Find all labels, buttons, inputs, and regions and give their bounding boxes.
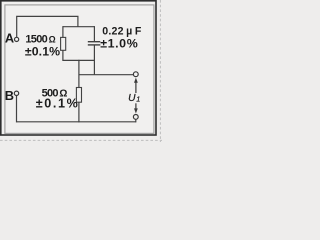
resistor R 500 ohm <box>76 88 81 103</box>
dashed border bottom <box>0 139 162 141</box>
wire middle bus <box>63 59 95 61</box>
svg-text:±0.1%: ±0.1% <box>36 97 80 111</box>
output terminal bottom <box>133 115 138 120</box>
voltage arrow up shaft <box>135 82 137 94</box>
wire riser to lower terminal <box>135 119 137 122</box>
terminal A circle <box>15 37 19 41</box>
dashed border right <box>159 0 161 142</box>
wire B down lead <box>16 96 18 123</box>
resistor R 1500 ohm <box>61 37 66 50</box>
capacitor C plates <box>88 42 101 45</box>
wire R1 top lead <box>62 26 64 37</box>
svg-text:B: B <box>5 88 14 103</box>
inner gray frame <box>5 5 154 134</box>
svg-text:±0.1%: ±0.1% <box>25 45 60 59</box>
svg-text:±1.0%: ±1.0% <box>100 37 138 51</box>
terminal B circle <box>14 91 18 95</box>
wire A up and across top <box>17 16 78 37</box>
svg-text:U: U <box>128 93 136 104</box>
wire R1 bottom lead <box>62 50 64 61</box>
wire lower bus to output <box>79 74 133 76</box>
wire top bus <box>63 26 95 28</box>
wire capacitor top lead <box>93 26 95 41</box>
wire bottom rail <box>17 121 136 123</box>
outer dark frame <box>1 1 156 135</box>
voltage arrow down head <box>134 108 138 113</box>
output terminal top <box>133 72 138 77</box>
voltage arrow down shaft <box>135 103 137 110</box>
wire R2 bottom lead <box>78 102 80 122</box>
svg-text:1: 1 <box>136 94 140 103</box>
voltage arrow up head <box>134 78 138 83</box>
paper background <box>0 0 162 142</box>
wire R2 branch from middle bus <box>78 60 80 88</box>
svg-text:A: A <box>5 31 14 46</box>
wire capacitor bottom lead <box>93 45 95 74</box>
svg-text:0.22 µ F: 0.22 µ F <box>102 25 142 37</box>
